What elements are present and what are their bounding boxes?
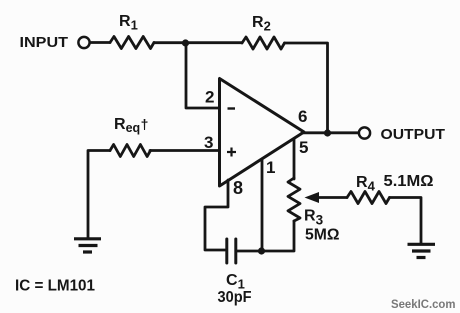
svg-text:5.1MΩ: 5.1MΩ <box>384 173 434 190</box>
svg-text:2: 2 <box>205 88 214 107</box>
resistor R4 <box>347 192 390 204</box>
ground (left) <box>74 239 101 252</box>
wire pin 5 to R3 <box>293 139 296 179</box>
resistor Req <box>110 145 151 157</box>
wire R1 to R2 <box>154 41 242 44</box>
wiper arrow of R3 <box>305 192 320 203</box>
minus sign of op-amp <box>228 107 236 109</box>
svg-text:5MΩ: 5MΩ <box>305 227 340 244</box>
capacitor C1 <box>225 239 228 263</box>
wire pin 3 <box>150 149 219 152</box>
resistor R1 <box>110 37 154 49</box>
wire node A to pin 2 <box>186 43 219 108</box>
wire pin 8 to C1 <box>205 180 228 250</box>
svg-text:5: 5 <box>299 138 308 157</box>
svg-text:6: 6 <box>298 107 307 126</box>
svg-text:OUTPUT: OUTPUT <box>381 126 446 143</box>
resistor R2 <box>242 37 285 49</box>
svg-text:3: 3 <box>204 133 213 152</box>
svg-text:8: 8 <box>233 178 243 198</box>
wire R4 arrow line <box>316 196 347 199</box>
svg-text:INPUT: INPUT <box>20 34 69 51</box>
ground (right) <box>408 244 436 257</box>
wire pin 1 <box>261 159 264 251</box>
output node junction dot <box>324 129 331 136</box>
wire R3 to junction <box>262 221 295 251</box>
junction C1/R3/pin1 <box>258 247 265 254</box>
wire output <box>302 131 359 134</box>
output terminal <box>359 127 370 138</box>
svg-text:SeekIC.com: SeekIC.com <box>391 297 456 311</box>
wire R2 to output node <box>285 43 328 133</box>
plus sign of op-amp <box>227 151 236 153</box>
op-amp U1 LM101 <box>220 79 305 187</box>
wire Req to ground <box>88 151 110 239</box>
wire C1 to junction <box>236 250 262 253</box>
potentiometer R3 <box>288 178 300 221</box>
wire input to R1 <box>91 41 110 44</box>
svg-text:30pF: 30pF <box>218 289 252 306</box>
node A junction dot <box>182 39 189 46</box>
svg-text:IC = LM101: IC = LM101 <box>15 278 95 295</box>
svg-text:1: 1 <box>266 158 275 177</box>
wire R4 to ground <box>390 198 422 244</box>
input terminal <box>78 37 89 48</box>
